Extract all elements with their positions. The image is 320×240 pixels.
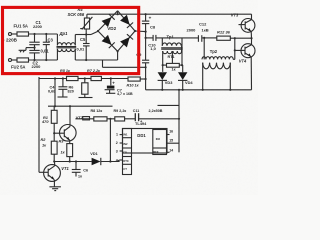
wire neutral branch bbox=[103, 60, 147, 68]
capacitor C1 bbox=[29, 34, 39, 50]
resistor R12 bbox=[217, 36, 253, 40]
choke Dr1 core bbox=[57, 46, 77, 48]
pin 14 bbox=[167, 151, 170, 153]
diode VD1 bbox=[92, 158, 120, 165]
capacitor C11 bbox=[135, 113, 179, 121]
wire minus vertical bbox=[145, 32, 147, 60]
bridge diode bottom-left bbox=[102, 35, 115, 48]
node C3 bottom bbox=[45, 59, 47, 61]
input terminal bottom bbox=[9, 59, 12, 62]
bridge diode top-right bbox=[120, 15, 133, 28]
capacitor C12 bbox=[182, 35, 217, 42]
pin 4 bbox=[120, 159, 123, 161]
pin 2 bbox=[120, 142, 123, 144]
wire bbox=[12, 33, 18, 35]
pin 16 bbox=[167, 134, 170, 136]
bridge VD2 diamond bbox=[97, 11, 136, 53]
capacitor C6 bbox=[72, 162, 81, 177]
transformer Tp1 bbox=[161, 38, 183, 72]
capacitor C2 bbox=[29, 50, 39, 60]
node C2 bottom bbox=[33, 59, 35, 61]
node rail joins bbox=[178, 89, 180, 91]
fuse FU1 bbox=[17, 32, 29, 36]
capacitor C7 bbox=[105, 79, 116, 94]
wire bbox=[12, 59, 18, 61]
node C5 top bbox=[85, 33, 87, 35]
chassis symbol bbox=[19, 48, 26, 53]
resistor R2 bbox=[51, 141, 57, 162]
transformer Tp2 bbox=[202, 38, 235, 91]
resistor R1 bbox=[51, 106, 57, 141]
ground bbox=[49, 187, 61, 191]
transistor VT2 bbox=[54, 106, 76, 143]
capacitor C9 bbox=[142, 60, 149, 90]
transistor VT4 bbox=[234, 38, 255, 90]
IC DD1 outer box bbox=[123, 129, 168, 154]
wire top dc rail bbox=[118, 13, 252, 15]
resistor R3 bbox=[67, 144, 73, 163]
IC DD1 right column bbox=[153, 130, 167, 155]
resistor R9 bbox=[115, 117, 135, 121]
capacitor C8 bbox=[142, 14, 149, 31]
wire bridge right to minus bbox=[135, 30, 146, 33]
wire DD1 upper right links bbox=[158, 90, 181, 153]
bridge diode top-left bbox=[102, 14, 115, 27]
diode VD4 bbox=[178, 65, 187, 91]
capacitor C5 bbox=[83, 35, 90, 61]
choke Dr1 bottom winding bbox=[57, 49, 117, 60]
red highlight rectangle bbox=[3, 7, 139, 73]
capacitor C4 bbox=[58, 79, 68, 98]
wire to bridge left bbox=[86, 34, 91, 36]
node C1 top bbox=[33, 33, 35, 35]
transistor VT3 bbox=[239, 14, 255, 38]
small box bbox=[83, 117, 90, 120]
node C5 bottom bbox=[85, 59, 87, 61]
wire top rail bbox=[29, 33, 58, 35]
input terminal top bbox=[9, 33, 12, 36]
lower left rail bbox=[39, 77, 128, 172]
wire VT2 to R8 bbox=[75, 118, 93, 120]
capacitor C10 bbox=[146, 35, 182, 41]
supply drop wire bbox=[54, 79, 56, 107]
wire C12 branch vertical bbox=[181, 38, 183, 65]
diode VD3 bbox=[158, 72, 167, 91]
wire bottom rail bbox=[29, 59, 58, 61]
chassis tap wire bbox=[26, 47, 35, 49]
pin 3 bbox=[120, 150, 123, 152]
text labels group bbox=[2, 7, 247, 179]
resistor R10 bbox=[128, 77, 146, 81]
IC DD1 left column bbox=[123, 129, 132, 175]
resistor R5 bbox=[67, 76, 79, 80]
bridge diode bottom-right bbox=[120, 34, 133, 47]
wire VT1 collector row bbox=[54, 161, 91, 163]
resistor R8 bbox=[94, 117, 107, 121]
thermistor RT1 bbox=[162, 63, 184, 67]
pin 1 bbox=[120, 134, 123, 136]
transistor VT1 bbox=[39, 162, 60, 187]
choke Dr1 top winding bbox=[57, 34, 86, 45]
node C3 top bbox=[45, 33, 47, 35]
resistor R7 bbox=[91, 76, 101, 80]
varistor R4 bbox=[80, 14, 117, 34]
node R8 R9 bbox=[107, 118, 115, 162]
rail mid bbox=[48, 105, 113, 107]
wire bottom long rail bbox=[146, 89, 252, 91]
wire bridge bottom to rail bbox=[117, 51, 119, 60]
resistor R6 bbox=[79, 79, 93, 98]
capacitor C3 bbox=[43, 34, 50, 60]
fuse FU2 bbox=[17, 58, 29, 62]
